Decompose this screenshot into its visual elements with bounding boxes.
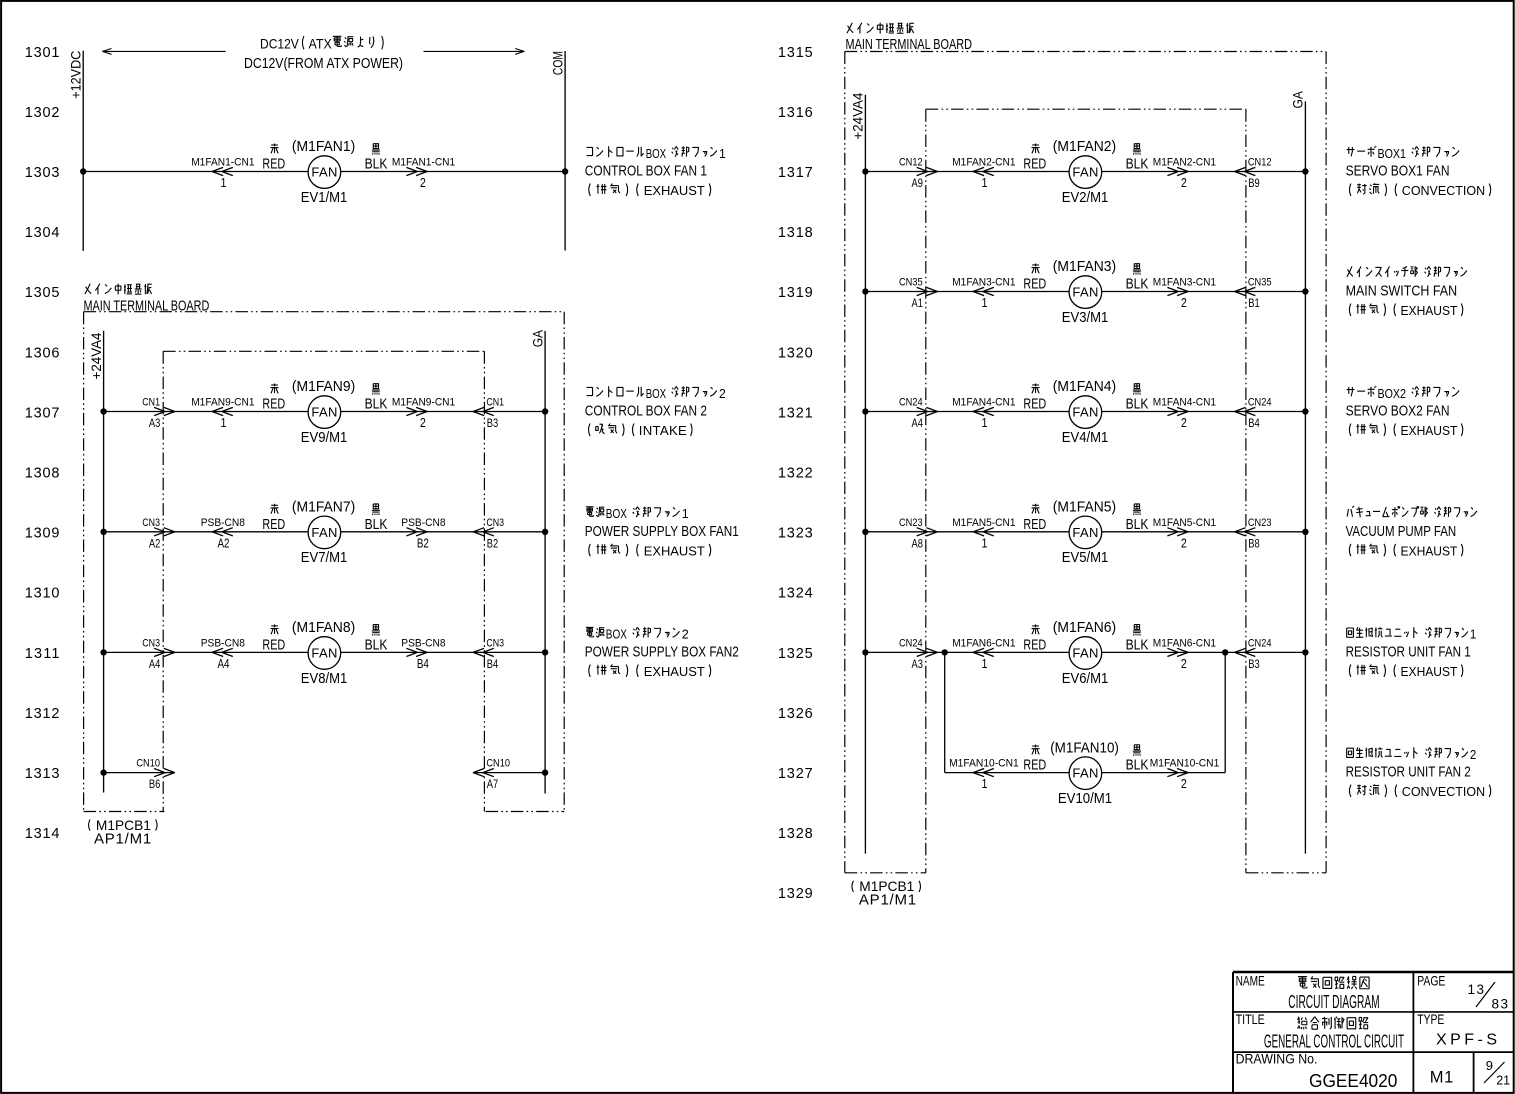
svg-text:EXHAUST: EXHAUST [1401,664,1458,679]
svg-text:RED: RED [1023,636,1046,653]
svg-text:AP1/M1: AP1/M1 [859,892,916,909]
svg-text:MAIN SWITCH FAN: MAIN SWITCH FAN [1346,283,1458,300]
svg-text:B4: B4 [487,657,499,671]
svg-text:13: 13 [1468,982,1485,997]
svg-text:1307: 1307 [25,405,60,421]
svg-text:(M1FAN8): (M1FAN8) [292,619,355,636]
svg-text:M1FAN10-CN1: M1FAN10-CN1 [1150,758,1220,770]
svg-text:FAN: FAN [311,525,337,540]
svg-text:COM: COM [551,51,566,75]
svg-text:FAN: FAN [1072,405,1098,420]
svg-text:BOX2: BOX2 [1378,386,1407,401]
svg-text:CN12: CN12 [1248,157,1272,169]
svg-text:CONTROL BOX FAN 1: CONTROL BOX FAN 1 [585,163,707,180]
svg-text:(M1FAN5): (M1FAN5) [1053,499,1116,516]
svg-text:EV2/M1: EV2/M1 [1062,189,1109,206]
svg-text:CN24: CN24 [899,397,923,409]
svg-text:1316: 1316 [778,105,813,121]
svg-text:EV1/M1: EV1/M1 [301,189,348,206]
svg-text:1322: 1322 [778,466,813,482]
svg-text:BLK: BLK [365,396,388,413]
svg-text:CN3: CN3 [142,517,160,529]
svg-text:1324: 1324 [778,586,813,602]
svg-text:1319: 1319 [778,285,813,301]
svg-text:1303: 1303 [25,165,60,181]
svg-text:EXHAUST: EXHAUST [1401,423,1458,438]
svg-text:CN24: CN24 [899,637,923,649]
svg-text:1328: 1328 [778,826,813,842]
svg-text:1: 1 [1470,627,1476,642]
svg-text:1318: 1318 [778,225,813,241]
svg-text:2: 2 [1181,416,1187,430]
svg-text:RED: RED [262,516,285,533]
svg-text:EV7/M1: EV7/M1 [301,549,348,566]
svg-text:EXHAUST: EXHAUST [644,664,705,679]
svg-text:EV9/M1: EV9/M1 [301,429,348,446]
svg-text:POWER SUPPLY BOX FAN1: POWER SUPPLY BOX FAN1 [585,523,739,540]
svg-text:1309: 1309 [25,526,60,542]
svg-text:1301: 1301 [25,45,60,61]
svg-text:1: 1 [982,657,988,671]
svg-text:RED: RED [262,636,285,653]
svg-text:SERVO BOX1 FAN: SERVO BOX1 FAN [1346,163,1450,180]
svg-text:M1FAN1-CN1: M1FAN1-CN1 [392,157,455,169]
svg-text:M1FAN9-CN1: M1FAN9-CN1 [191,397,254,409]
svg-text:CN3: CN3 [486,637,504,649]
svg-text:A8: A8 [912,536,924,550]
svg-text:M1FAN5-CN1: M1FAN5-CN1 [952,517,1015,529]
svg-text:BOX: BOX [646,146,667,161]
svg-text:1327: 1327 [778,766,813,782]
svg-text:1312: 1312 [25,706,60,722]
svg-text:RESISTOR UNIT FAN 2: RESISTOR UNIT FAN 2 [1346,764,1471,781]
svg-text:BLK: BLK [1126,757,1149,774]
svg-text:(M1FAN6): (M1FAN6) [1053,619,1116,636]
svg-text:PSB-CN8: PSB-CN8 [401,517,445,529]
svg-text:CIRCUIT DIAGRAM: CIRCUIT DIAGRAM [1288,992,1379,1012]
svg-text:TITLE: TITLE [1236,1011,1265,1027]
svg-text:GA: GA [530,330,545,347]
svg-text:BOX: BOX [646,386,667,401]
svg-text:ATX: ATX [309,35,333,51]
svg-text:M1FAN5-CN1: M1FAN5-CN1 [1153,517,1216,529]
svg-text:FAN: FAN [311,165,337,180]
svg-text:BOX1: BOX1 [1378,146,1407,161]
svg-text:CN35: CN35 [1248,277,1272,289]
svg-text:VACUUM PUMP FAN: VACUUM PUMP FAN [1346,523,1457,540]
svg-text:A1: A1 [912,296,924,310]
svg-text:A3: A3 [149,416,161,430]
svg-text:M1FAN3-CN1: M1FAN3-CN1 [1153,277,1216,289]
svg-text:1302: 1302 [25,105,60,121]
svg-text:B2: B2 [417,536,429,550]
svg-text:EXHAUST: EXHAUST [1401,303,1458,318]
svg-text:M1FAN2-CN1: M1FAN2-CN1 [952,157,1015,169]
svg-text:M1FAN6-CN1: M1FAN6-CN1 [1153,637,1216,649]
svg-text:CN1: CN1 [142,397,160,409]
svg-text:B4: B4 [417,657,429,671]
svg-text:CN24: CN24 [1248,637,1272,649]
svg-text:2: 2 [1181,296,1187,310]
svg-text:CONVECTION: CONVECTION [1402,183,1485,198]
svg-text:83: 83 [1492,996,1509,1011]
svg-text:1306: 1306 [25,345,60,361]
svg-text:FAN: FAN [1072,285,1098,300]
svg-text:FAN: FAN [1072,766,1098,781]
svg-text:A7: A7 [487,777,499,791]
svg-text:POWER SUPPLY BOX FAN2: POWER SUPPLY BOX FAN2 [585,644,739,661]
svg-text:PAGE: PAGE [1417,973,1445,989]
svg-text:21: 21 [1496,1073,1510,1087]
svg-text:RED: RED [1023,516,1046,533]
svg-text:TYPE: TYPE [1417,1011,1444,1027]
svg-text:B2: B2 [487,536,499,550]
svg-text:CN23: CN23 [1248,517,1272,529]
svg-text:(M1FAN7): (M1FAN7) [292,499,355,516]
svg-text:CN35: CN35 [899,277,923,289]
svg-text:MAIN TERMINAL BOARD: MAIN TERMINAL BOARD [846,36,973,53]
svg-text:A4: A4 [149,657,161,671]
svg-text:BLK: BLK [1126,156,1149,173]
svg-text:GA: GA [1291,91,1306,108]
svg-text:INTAKE: INTAKE [639,423,687,438]
svg-text:PSB-CN8: PSB-CN8 [201,637,245,649]
svg-text:B8: B8 [1248,536,1260,550]
svg-text:1304: 1304 [25,225,60,241]
svg-text:2: 2 [682,627,689,642]
svg-text:SERVO BOX2 FAN: SERVO BOX2 FAN [1346,403,1450,420]
svg-text:EV10/M1: EV10/M1 [1058,790,1112,807]
svg-text:CN3: CN3 [486,517,504,529]
svg-text:M1FAN4-CN1: M1FAN4-CN1 [1153,397,1216,409]
svg-text:+24VA4: +24VA4 [851,92,866,139]
svg-text:2: 2 [1181,777,1187,791]
svg-text:2: 2 [1181,176,1187,190]
svg-text:CN24: CN24 [1248,397,1272,409]
svg-text:RESISTOR UNIT FAN 1: RESISTOR UNIT FAN 1 [1346,644,1471,661]
svg-text:FAN: FAN [1072,165,1098,180]
svg-text:2: 2 [420,176,426,190]
svg-text:(M1FAN2): (M1FAN2) [1053,138,1116,155]
svg-text:CN12: CN12 [899,157,923,169]
svg-text:1: 1 [982,777,988,791]
svg-text:M1FAN3-CN1: M1FAN3-CN1 [952,277,1015,289]
svg-text:2: 2 [719,386,726,401]
svg-text:A4: A4 [912,416,924,430]
svg-text:1310: 1310 [25,586,60,602]
svg-text:A2: A2 [218,536,230,550]
svg-text:M1FAN4-CN1: M1FAN4-CN1 [952,397,1015,409]
svg-text:FAN: FAN [1072,645,1098,660]
svg-text:+12VDC: +12VDC [69,50,84,98]
svg-text:A3: A3 [912,657,924,671]
svg-text:1: 1 [982,536,988,550]
svg-text:1323: 1323 [778,526,813,542]
svg-text:2: 2 [1181,536,1187,550]
svg-text:1325: 1325 [778,646,813,662]
svg-text:1: 1 [221,176,227,190]
svg-text:CONVECTION: CONVECTION [1402,784,1485,799]
svg-text:9: 9 [1486,1058,1493,1073]
svg-text:RED: RED [1023,757,1046,774]
svg-text:EV5/M1: EV5/M1 [1062,549,1109,566]
svg-text:B3: B3 [1248,657,1260,671]
svg-text:DRAWING No.: DRAWING No. [1236,1051,1318,1067]
svg-text:1326: 1326 [778,706,813,722]
svg-text:BLK: BLK [1126,516,1149,533]
svg-text:2: 2 [1181,657,1187,671]
svg-text:BLK: BLK [365,636,388,653]
svg-text:RED: RED [1023,156,1046,173]
svg-text:CN3: CN3 [142,637,160,649]
svg-text:B1: B1 [1248,296,1260,310]
svg-text:1: 1 [982,296,988,310]
svg-text:B6: B6 [149,777,161,791]
svg-text:EV4/M1: EV4/M1 [1062,429,1109,446]
svg-text:A2: A2 [149,536,161,550]
svg-text:BOX: BOX [606,506,627,521]
svg-text:1320: 1320 [778,345,813,361]
svg-text:CN23: CN23 [899,517,923,529]
svg-text:RED: RED [262,156,285,173]
svg-text:RED: RED [1023,396,1046,413]
svg-text:CN10: CN10 [136,758,160,770]
svg-text:(M1FAN4): (M1FAN4) [1053,378,1116,395]
svg-text:FAN: FAN [311,405,337,420]
svg-text:1313: 1313 [25,766,60,782]
svg-text:1314: 1314 [25,826,60,842]
svg-text:A9: A9 [912,176,924,190]
svg-text:GENERAL CONTROL CIRCUIT: GENERAL CONTROL CIRCUIT [1264,1032,1404,1052]
svg-text:1305: 1305 [25,285,60,301]
svg-text:M1: M1 [1430,1068,1454,1086]
svg-text:1321: 1321 [778,405,813,421]
svg-text:BLK: BLK [1126,396,1149,413]
svg-text:M1FAN9-CN1: M1FAN9-CN1 [392,397,455,409]
svg-text:BLK: BLK [1126,636,1149,653]
svg-text:EXHAUST: EXHAUST [644,183,705,198]
svg-text:M1FAN1-CN1: M1FAN1-CN1 [191,157,254,169]
svg-text:1329: 1329 [778,886,813,902]
svg-text:CONTROL BOX FAN 2: CONTROL BOX FAN 2 [585,403,707,420]
svg-text:CN1: CN1 [486,397,504,409]
svg-text:A4: A4 [218,657,230,671]
svg-text:M1FAN6-CN1: M1FAN6-CN1 [952,637,1015,649]
svg-text:M1FAN2-CN1: M1FAN2-CN1 [1153,157,1216,169]
svg-text:1: 1 [982,416,988,430]
svg-text:1308: 1308 [25,466,60,482]
svg-text:B3: B3 [487,416,499,430]
svg-text:DC12V(FROM ATX POWER): DC12V(FROM ATX POWER) [244,55,403,72]
svg-text:RED: RED [1023,276,1046,293]
svg-text:BLK: BLK [365,516,388,533]
svg-text:1315: 1315 [778,45,813,61]
svg-text:(M1FAN10): (M1FAN10) [1050,739,1119,756]
svg-text:(M1FAN3): (M1FAN3) [1053,258,1116,275]
svg-text:1: 1 [982,176,988,190]
svg-text:1317: 1317 [778,165,813,181]
svg-text:GGEE4020: GGEE4020 [1309,1070,1397,1091]
svg-text:EV8/M1: EV8/M1 [301,670,348,687]
svg-text:1: 1 [719,146,726,161]
svg-text:XPF-S: XPF-S [1436,1032,1497,1049]
svg-text:BOX: BOX [606,627,627,642]
svg-text:PSB-CN8: PSB-CN8 [401,637,445,649]
svg-text:2: 2 [420,416,426,430]
svg-text:1: 1 [221,416,227,430]
svg-text:AP1/M1: AP1/M1 [94,831,151,848]
svg-text:EV6/M1: EV6/M1 [1062,670,1109,687]
svg-text:BLK: BLK [1126,276,1149,293]
svg-text:NAME: NAME [1236,973,1265,989]
svg-text:+24VA4: +24VA4 [89,332,104,379]
svg-text:FAN: FAN [1072,525,1098,540]
svg-text:FAN: FAN [311,645,337,660]
svg-text:(M1FAN1): (M1FAN1) [292,138,355,155]
svg-text:EV3/M1: EV3/M1 [1062,309,1109,326]
svg-text:2: 2 [1470,747,1476,762]
svg-text:1: 1 [682,506,689,521]
svg-text:CN10: CN10 [486,758,510,770]
svg-text:BLK: BLK [365,156,388,173]
svg-text:M1FAN10-CN1: M1FAN10-CN1 [949,758,1019,770]
svg-text:EXHAUST: EXHAUST [1401,543,1458,558]
svg-text:RED: RED [262,396,285,413]
svg-text:B4: B4 [1248,416,1260,430]
svg-text:PSB-CN8: PSB-CN8 [201,517,245,529]
svg-text:DC12V: DC12V [260,35,299,51]
svg-text:(M1FAN9): (M1FAN9) [292,378,355,395]
svg-text:EXHAUST: EXHAUST [644,543,705,558]
svg-text:B9: B9 [1248,176,1260,190]
